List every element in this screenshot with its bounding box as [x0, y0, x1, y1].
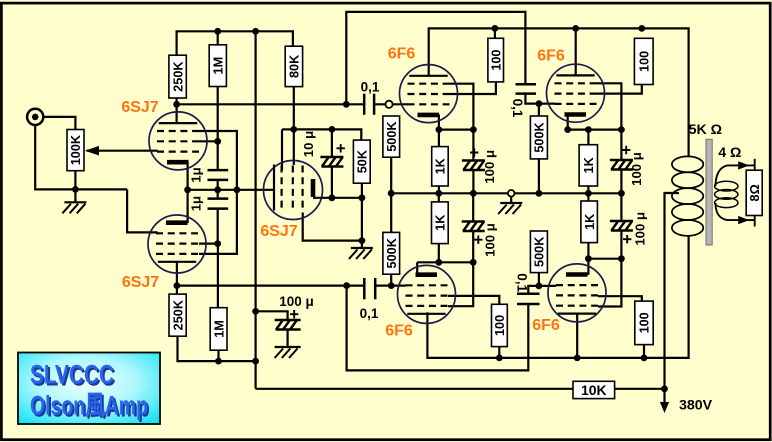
svg-text:6F6: 6F6 — [532, 317, 560, 334]
svg-text:80K: 80K — [288, 54, 302, 78]
svg-text:1μ: 1μ — [188, 167, 203, 182]
svg-text:100: 100 — [489, 50, 503, 71]
svg-text:SLVCCC: SLVCCC — [30, 360, 114, 390]
svg-text:250K: 250K — [171, 299, 185, 330]
svg-text:380V: 380V — [679, 398, 713, 414]
svg-text:4 Ω: 4 Ω — [718, 145, 741, 161]
svg-text:100: 100 — [638, 312, 652, 333]
svg-text:1M: 1M — [212, 57, 226, 75]
svg-text:0,1: 0,1 — [361, 79, 380, 94]
svg-text:Olson風Amp: Olson風Amp — [30, 391, 148, 421]
svg-text:100 μ: 100 μ — [482, 223, 497, 257]
svg-text:6F6: 6F6 — [537, 47, 565, 64]
svg-text:0,1: 0,1 — [510, 99, 525, 118]
svg-text:100: 100 — [637, 51, 651, 72]
svg-text:100: 100 — [493, 315, 507, 336]
svg-text:5K Ω: 5K Ω — [689, 122, 722, 138]
svg-text:6SJ7: 6SJ7 — [260, 223, 297, 240]
svg-text:100 μ: 100 μ — [629, 152, 644, 186]
svg-text:1M: 1M — [212, 320, 226, 338]
svg-text:0,1: 0,1 — [360, 306, 379, 321]
svg-text:500K: 500K — [533, 121, 547, 152]
svg-text:6SJ7: 6SJ7 — [121, 99, 158, 116]
svg-text:1K: 1K — [434, 214, 448, 231]
svg-text:8Ω: 8Ω — [748, 184, 762, 201]
svg-text:1μ: 1μ — [188, 196, 203, 211]
svg-text:1K: 1K — [434, 157, 448, 174]
svg-text:0,1: 0,1 — [515, 273, 530, 292]
svg-text:50K: 50K — [356, 149, 370, 173]
svg-text:6SJ7: 6SJ7 — [122, 274, 159, 291]
svg-text:6F6: 6F6 — [385, 323, 413, 340]
svg-text:100 μ: 100 μ — [279, 294, 314, 309]
svg-text:6F6: 6F6 — [388, 46, 416, 63]
svg-text:100 μ: 100 μ — [482, 150, 497, 184]
svg-text:10K: 10K — [581, 382, 607, 398]
svg-text:500K: 500K — [533, 236, 547, 267]
svg-text:10 μ: 10 μ — [301, 131, 316, 157]
svg-text:100K: 100K — [69, 134, 83, 165]
svg-text:500K: 500K — [385, 237, 399, 268]
svg-text:1K: 1K — [582, 156, 596, 173]
svg-text:1K: 1K — [583, 213, 597, 230]
svg-text:500K: 500K — [385, 121, 399, 152]
svg-text:100 μ: 100 μ — [633, 212, 648, 246]
svg-text:250K: 250K — [171, 61, 185, 92]
